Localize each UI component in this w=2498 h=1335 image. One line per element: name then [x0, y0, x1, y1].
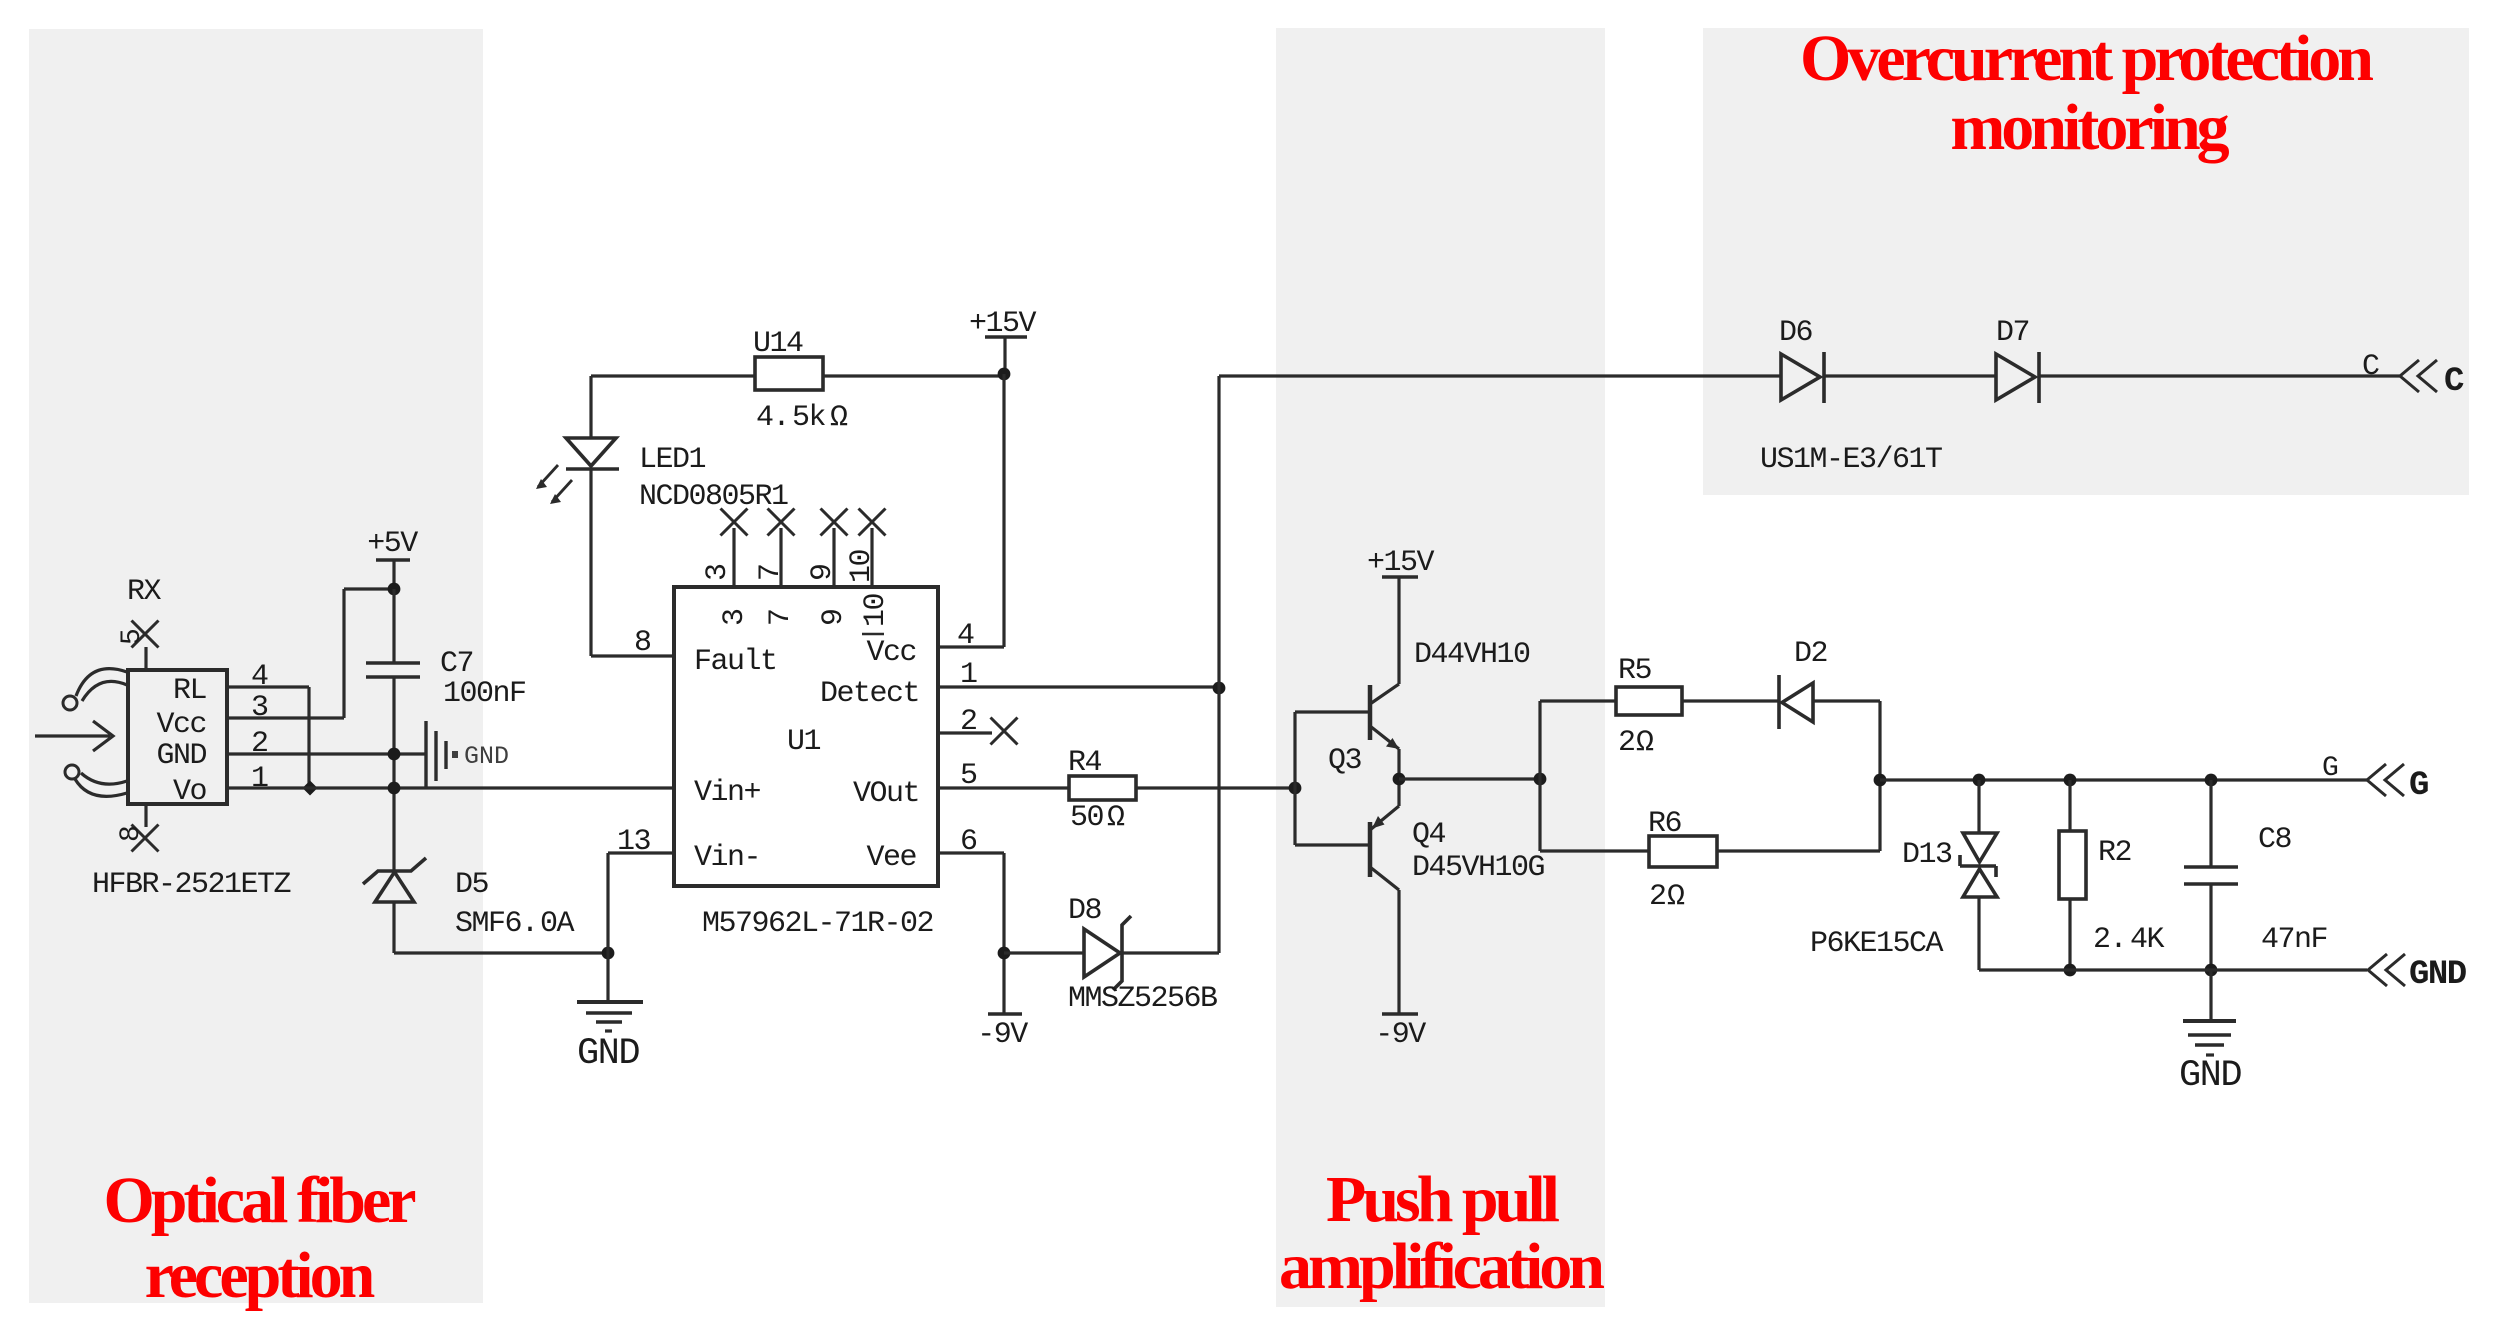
section panel: Optical fiber reception	[29, 29, 483, 1303]
node D5/pin13 ground junction	[602, 947, 615, 960]
section panel: Push pull amplification	[1276, 28, 1605, 1307]
svg-text:NCD0805R1: NCD0805R1	[639, 480, 788, 514]
svg-text:5k: 5k	[792, 401, 826, 435]
wire Detect riser and top rail to D6	[1219, 376, 1781, 953]
resistor R4 50ohm	[1069, 776, 1136, 800]
power +5V symbol	[376, 558, 410, 561]
node +15V junction	[998, 368, 1011, 381]
capacitor C8 47nF	[2209, 780, 2212, 970]
node G line left junction	[1874, 774, 1887, 787]
wire RX pin 1 Vo to U1 pin 14	[227, 786, 674, 789]
svg-text:LED1: LED1	[639, 443, 706, 477]
svg-text:U14: U14	[753, 327, 803, 361]
node Detect junction	[1213, 682, 1226, 695]
node C8 bottom junction	[2205, 964, 2218, 977]
ground earth GND below pin 13	[606, 953, 609, 1002]
wire R4 to push-pull input	[1136, 786, 1295, 789]
diode D6 US1M-E3/61T	[1781, 354, 1820, 400]
svg-text:C7: C7	[440, 647, 473, 681]
node D13 top junction	[1973, 774, 1986, 787]
svg-text:R5: R5	[1618, 654, 1652, 688]
node +5V junction	[388, 583, 401, 596]
power +15V symbol at Q3	[1382, 575, 1418, 578]
power +15V symbol at U1	[985, 335, 1027, 338]
transistor Q4 D45VH10G PNP	[1368, 822, 1373, 877]
svg-text:GND: GND	[2409, 956, 2467, 994]
svg-text:6: 6	[960, 825, 977, 859]
svg-text:R6: R6	[1648, 807, 1682, 841]
svg-text:0A: 0A	[540, 907, 575, 941]
svg-text:Ω: Ω	[1107, 801, 1125, 835]
svg-text:G: G	[2409, 767, 2428, 805]
svg-text:D7: D7	[1996, 316, 2029, 350]
node R2 bottom junction	[2064, 964, 2077, 977]
svg-text:VOut: VOut	[853, 777, 919, 811]
wire U1 pin 8 to LED1	[591, 469, 674, 656]
wire D7 to port C	[2039, 374, 2400, 377]
RX pin 8 no-connect	[144, 804, 147, 827]
svg-text:3: 3	[718, 609, 752, 626]
U1 top no-connect pin 7	[779, 528, 782, 587]
LED LED1 NCD0805R1	[566, 438, 616, 466]
svg-text:2: 2	[251, 727, 268, 761]
svg-text:4: 4	[957, 619, 974, 653]
wire U1 pin 6 Vee to -9V	[938, 853, 1004, 1014]
svg-text:SMF6.: SMF6.	[455, 907, 538, 941]
svg-text:P6KE15CA: P6KE15CA	[1810, 927, 1944, 961]
node Q3/Q4 emitter junction	[1393, 773, 1406, 786]
power -9V symbol at U1	[988, 1012, 1022, 1015]
wire RX pin 3 to +5V	[227, 589, 394, 718]
svg-text:Vo: Vo	[173, 775, 207, 809]
svg-text:Vin+: Vin+	[694, 776, 761, 810]
svg-text:Ω: Ω	[830, 401, 848, 435]
svg-text:13: 13	[617, 825, 651, 859]
svg-text:M57962L-71R-02: M57962L-71R-02	[702, 907, 933, 941]
svg-text:D13: D13	[1902, 838, 1952, 872]
diode D7 US1M-E3/61T	[1996, 354, 2035, 400]
node C7/GND junction	[388, 748, 401, 761]
svg-text:R4: R4	[1068, 746, 1102, 780]
svg-text:D5: D5	[455, 868, 489, 902]
svg-text:Vee: Vee	[866, 841, 916, 875]
svg-text:MMSZ5256B: MMSZ5256B	[1068, 982, 1217, 1016]
capacitor C7 100nF	[392, 589, 395, 870]
diode D8 MMSZ5256B zener	[1004, 951, 1084, 954]
wire output split riser	[1538, 701, 1541, 851]
wire GND line	[1979, 968, 2367, 971]
svg-text:5: 5	[960, 759, 977, 793]
svg-text:D6: D6	[1779, 316, 1813, 350]
svg-text:D2: D2	[1794, 637, 1827, 671]
wire emitter output	[1399, 777, 1540, 780]
svg-text:50: 50	[1070, 801, 1104, 835]
svg-text:Q3: Q3	[1328, 744, 1362, 778]
node diamond junction pin4/Vo	[303, 781, 318, 796]
svg-text:9: 9	[806, 564, 840, 581]
svg-text:8: 8	[116, 827, 147, 842]
svg-text:GND: GND	[2179, 1055, 2241, 1097]
svg-text:10: 10	[845, 549, 879, 583]
RX fiber connector arc bottom	[75, 779, 127, 796]
svg-text:1: 1	[960, 658, 977, 692]
svg-text:GND: GND	[577, 1033, 639, 1075]
svg-text:47nF: 47nF	[2261, 923, 2327, 957]
wire RX pin 2 to GND symbol	[227, 752, 425, 755]
ground signal GND symbol at RX pin2	[424, 721, 427, 787]
node C7/Vo junction	[388, 782, 401, 795]
svg-text:7: 7	[754, 564, 788, 581]
wire U14 to +15V node	[823, 374, 1004, 377]
resistor R2 2.4K	[2068, 780, 2071, 831]
svg-text:D8: D8	[1068, 894, 1102, 928]
svg-text:HFBR-2521ETZ: HFBR-2521ETZ	[92, 868, 291, 902]
resistor R5 2ohm	[1616, 687, 1682, 715]
svg-text:2: 2	[1618, 726, 1635, 760]
IC U1 M57962L-71R-02 box	[674, 587, 938, 886]
svg-text:Vcc: Vcc	[156, 708, 206, 742]
svg-text:+15V: +15V	[969, 307, 1037, 341]
svg-text:Optical fiber: Optical fiber	[103, 1164, 415, 1237]
svg-text:D44VH10: D44VH10	[1414, 638, 1530, 672]
diode D5 SMF6.0A TVS	[375, 872, 414, 902]
diode D2	[1782, 683, 1813, 722]
wire LED1 to U14	[591, 374, 755, 377]
svg-text:Detect: Detect	[820, 677, 919, 711]
svg-text:G: G	[2322, 753, 2338, 784]
svg-text:4.: 4.	[756, 401, 789, 435]
svg-text:C: C	[2362, 350, 2379, 384]
svg-text:7: 7	[764, 609, 798, 626]
power -9V symbol at Q4	[1382, 1012, 1418, 1015]
node push-pull input junction	[1289, 782, 1302, 795]
wire to R5	[1540, 699, 1616, 702]
svg-text:Vcc: Vcc	[866, 636, 916, 670]
svg-text:D45VH10G: D45VH10G	[1412, 851, 1545, 885]
wire G line	[1880, 778, 2367, 781]
U1 top no-connect pin 9	[832, 528, 835, 587]
svg-text:Ω: Ω	[1636, 726, 1654, 760]
node C8 top junction	[2205, 774, 2218, 787]
resistor R6 2ohm	[1649, 836, 1717, 867]
svg-text:Vin-: Vin-	[694, 841, 760, 875]
RX fiber connector arc top	[76, 669, 127, 696]
svg-text:Fault: Fault	[694, 645, 777, 679]
svg-text:GND: GND	[156, 739, 206, 773]
svg-text:RL: RL	[173, 674, 207, 708]
wire R5 to D2	[1682, 699, 1779, 702]
svg-text:2: 2	[1649, 880, 1666, 914]
resistor U14 4.5k	[755, 357, 823, 390]
wire RX pin 4 to Vo node	[227, 687, 309, 788]
wire to R6	[1540, 849, 1649, 852]
transistor Q3 D44VH10 NPN	[1368, 685, 1373, 740]
wire U1 pin 1 Detect	[938, 685, 1219, 688]
svg-text:U1: U1	[787, 725, 821, 759]
wire D2 to G node	[1813, 701, 1880, 780]
svg-text:Push pull: Push pull	[1326, 1163, 1560, 1236]
svg-text:3: 3	[701, 564, 735, 581]
svg-text:4: 4	[251, 660, 268, 694]
svg-text:3: 3	[251, 691, 268, 725]
svg-text:+15V: +15V	[1367, 546, 1435, 580]
svg-text:Ω: Ω	[1667, 880, 1685, 914]
wire U1 pin 13	[608, 853, 674, 953]
U1 top no-connect pin 3	[732, 528, 735, 587]
svg-text:10: 10	[859, 593, 893, 627]
ground earth GND below C8	[2209, 970, 2212, 1021]
wire R6 to G node	[1717, 780, 1880, 851]
svg-text:monitoring: monitoring	[1950, 91, 2229, 164]
svg-text:RX: RX	[127, 575, 162, 609]
wire +15V to U1 pin 4 Vcc	[938, 374, 1004, 647]
svg-text:+5V: +5V	[367, 527, 418, 561]
svg-text:9: 9	[817, 609, 851, 626]
U1 pin 2 no-connect stub	[938, 731, 992, 734]
svg-text:1: 1	[251, 762, 268, 796]
svg-text:GND: GND	[464, 742, 509, 771]
node Vee/D8 junction	[998, 947, 1011, 960]
wire base bracket	[1295, 712, 1370, 845]
diode D13 P6KE15CA TVS bidirectional	[1977, 780, 1980, 833]
port GND output	[2368, 954, 2405, 986]
node R2 top junction	[2064, 774, 2077, 787]
svg-text:amplification: amplification	[1279, 1230, 1604, 1303]
svg-text:Overcurrent protection: Overcurrent protection	[1800, 22, 2373, 95]
svg-text:Q4: Q4	[1412, 818, 1446, 852]
svg-text:C8: C8	[2258, 823, 2292, 857]
node output split junction	[1534, 773, 1547, 786]
svg-text:2: 2	[960, 705, 977, 739]
RX input light arrow	[35, 721, 113, 751]
section panel: Overcurrent protection monitoring	[1703, 28, 2469, 495]
svg-text:100nF: 100nF	[443, 677, 526, 711]
svg-text:8: 8	[634, 626, 651, 660]
U1 top no-connect pin 10	[870, 528, 873, 587]
svg-text:2.: 2.	[2093, 923, 2126, 957]
svg-text:reception: reception	[145, 1239, 375, 1312]
svg-text:C: C	[2444, 363, 2464, 401]
svg-text:US1M-E3/61T: US1M-E3/61T	[1760, 443, 1942, 477]
svg-text:-9V: -9V	[977, 1018, 1028, 1052]
optical receiver RX HFBR-2521ETZ box	[128, 670, 227, 804]
svg-text:4K: 4K	[2130, 923, 2165, 957]
svg-text:5: 5	[117, 629, 148, 645]
RX pin 5 no-connect	[144, 647, 147, 670]
wire U1 pin 5 VOut to R4	[938, 786, 1069, 789]
svg-text:R2: R2	[2098, 836, 2131, 870]
wire D6 to D7	[1824, 374, 1996, 377]
svg-text:-9V: -9V	[1375, 1018, 1426, 1052]
